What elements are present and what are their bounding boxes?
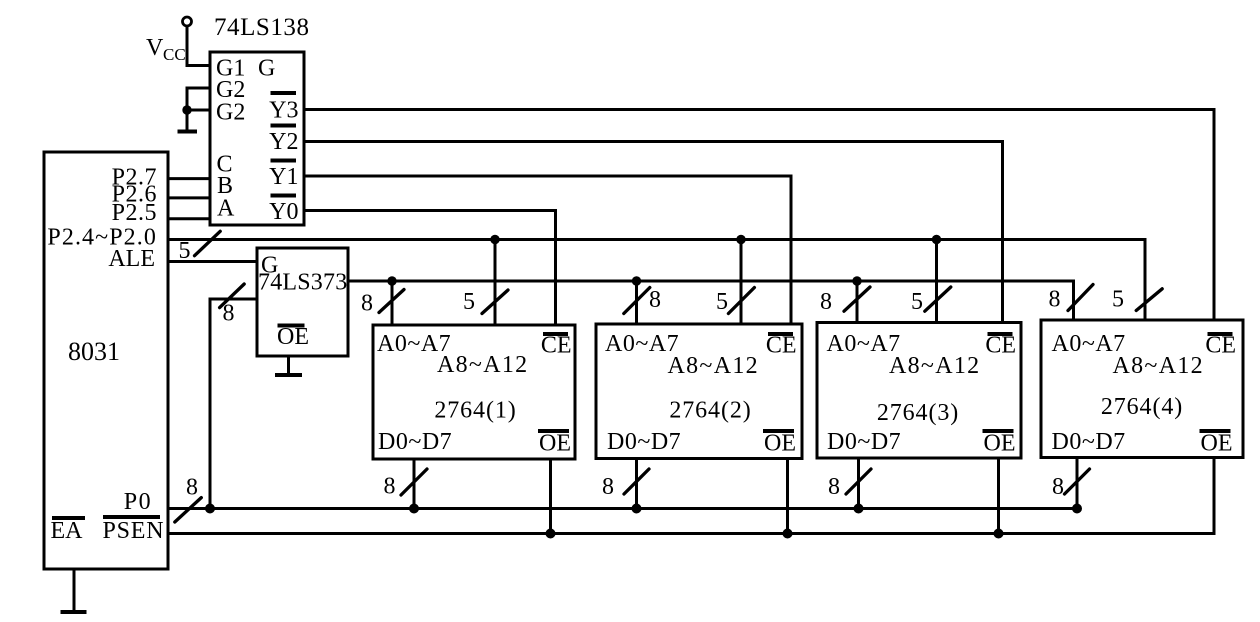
svg-text:2764(1): 2764(1) [434,398,516,424]
junction dot P0 box1 [409,504,419,514]
bus P0 data [168,507,1077,510]
svg-text:A8~A12: A8~A12 [889,353,980,379]
svg-text:8: 8 [602,474,614,500]
wire 373 input from P0 bus [210,299,257,509]
slash D box3 [846,469,871,494]
wire D0~D7 box3 [857,458,860,509]
wire Y1 to CE2 [304,176,791,324]
svg-text:CE: CE [766,333,797,359]
svg-text:8: 8 [186,475,198,501]
slash bus8 373 input [220,284,245,308]
svg-text:74LS138: 74LS138 [214,14,310,41]
junction dot PSEN box2 [783,529,793,539]
bus PSEN [168,458,1214,534]
wire ALE to G [168,260,257,263]
svg-text:OE: OE [539,431,571,457]
slash A8 box3 [925,287,951,311]
wire Vcc to G1 [187,26,210,66]
wire A0 tap box1 [391,281,394,325]
svg-text:2764(2): 2764(2) [669,398,751,424]
svg-text:5: 5 [716,289,728,315]
wire A0 tap box3 [856,281,859,323]
svg-text:Y1: Y1 [269,164,298,190]
slash A0 box1 [379,290,404,313]
wire A8 tap box2 [740,240,743,325]
wire A8 tap box3 [935,240,938,323]
slash D box2 [624,469,649,494]
wire A8 tap box1 [494,240,497,326]
svg-text:D0~D7: D0~D7 [607,429,681,455]
svg-text:5: 5 [911,289,923,315]
svg-text:Y3: Y3 [269,98,298,124]
slash D box4 [1065,469,1090,494]
slash A8 box2 [728,288,754,314]
junction dot PSEN box1 [546,529,556,539]
svg-text:A8~A12: A8~A12 [1113,353,1204,379]
svg-text:OE: OE [277,324,309,350]
svg-text:CE: CE [1205,333,1236,359]
svg-text:74LS373: 74LS373 [258,270,347,296]
slash D box1 [401,469,427,495]
junction dot P0 box4 [1072,504,1082,514]
junction dot P0 373 tap [205,504,215,514]
svg-text:OE: OE [984,431,1016,457]
eprom 2764(2) box [596,324,802,459]
svg-text:CE: CE [985,333,1016,359]
wire D0~D7 box1 [413,459,416,509]
wire Y2 to CE3 [304,142,1003,323]
eprom 2764(4) box [1041,320,1243,458]
svg-text:CE: CE [541,333,572,359]
svg-text:P0: P0 [124,489,152,515]
wire OE box3 [997,458,1000,534]
wire OE box2 [786,459,789,534]
svg-text:8: 8 [1049,287,1061,313]
ground under 8031 [73,569,76,612]
wire A0 tap box2 [635,281,638,324]
junction dot P2-bus box1 [490,235,499,244]
svg-text:5: 5 [463,289,475,315]
wire P2.5 to A [168,217,210,220]
slash A0 box3 [844,287,870,311]
svg-text:8: 8 [828,474,840,500]
svg-text:D0~D7: D0~D7 [378,429,452,455]
Vcc pull-up circle [183,17,192,26]
svg-text:OE: OE [764,431,796,457]
junction dot P0 box2 [632,504,642,514]
wire P2.6 to B [168,196,210,199]
wire D0~D7 box4 [1076,458,1079,509]
wire OE box1 [549,459,552,534]
slash A0 box4 [1068,285,1093,311]
ground under 74LS373 [287,356,290,375]
svg-text:8: 8 [361,291,373,317]
junction dot A-bus box3 [852,276,861,285]
svg-text:Y0: Y0 [269,199,298,225]
svg-text:PSEN: PSEN [103,518,165,544]
svg-text:P2.5: P2.5 [112,200,157,226]
junction dot P2-bus box2 [736,235,745,244]
svg-text:ALE: ALE [108,246,155,272]
junction dot A-bus box1 [387,276,396,285]
svg-text:A: A [217,196,235,222]
bus P2.4~P2.0 [168,240,1145,321]
svg-text:8031: 8031 [68,337,120,366]
svg-text:A8~A12: A8~A12 [437,352,528,378]
svg-text:8: 8 [1052,474,1064,500]
slash A8 box4 [1136,289,1162,311]
slash A8 box1 [482,290,508,314]
wire D0~D7 box2 [635,459,638,509]
ic 74LS373 box [257,248,348,356]
svg-text:G: G [258,56,275,82]
svg-text:8: 8 [649,287,661,313]
ground bar under G2 [178,130,198,134]
svg-text:2764(3): 2764(3) [877,400,959,426]
junction dot PSEN box3 [994,529,1004,539]
slash bus8 P0 [175,498,202,522]
bus A0~A7 from 373 output [348,281,1074,320]
wire G2a stub [187,88,210,132]
svg-text:G2: G2 [216,100,245,126]
svg-text:EA: EA [51,518,84,544]
ic 74LS138 box [210,52,304,225]
wire P2.7 to C [168,177,210,180]
svg-text:8: 8 [223,301,235,327]
slash bus5 near 8031 [195,231,221,255]
svg-text:A8~A12: A8~A12 [668,353,759,379]
svg-text:8: 8 [384,474,396,500]
svg-text:D0~D7: D0~D7 [827,429,901,455]
junction dot P0 box3 [854,504,864,514]
junction dot G2 [182,105,191,114]
eprom 2764(1) box [373,325,575,459]
svg-text:OE: OE [1201,431,1233,457]
junction dot A-bus box2 [632,276,641,285]
svg-text:5: 5 [1112,287,1124,313]
eprom 2764(3) box [817,323,1021,459]
svg-text:V: V [146,35,164,61]
slash A0 box2 [624,288,650,314]
svg-text:Y2: Y2 [269,129,298,155]
svg-text:D0~D7: D0~D7 [1052,429,1126,455]
wire Y0 to CE1 [304,211,556,326]
svg-text:CC: CC [163,45,186,64]
svg-text:8: 8 [820,289,832,315]
svg-text:2764(4): 2764(4) [1101,394,1183,420]
junction dot P2-bus box3 [932,235,941,244]
wire Y3 to CE4 [304,110,1214,321]
wire G2b stub [187,109,210,112]
ic 8031 box [44,152,168,569]
svg-text:5: 5 [179,238,191,264]
